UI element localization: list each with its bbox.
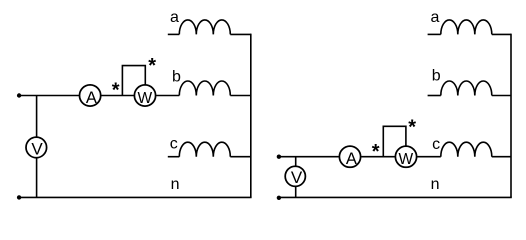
wire: b line, ammeter to wattmeter bbox=[101, 95, 134, 97]
svg-text:W: W bbox=[137, 90, 152, 107]
wire: a coil to neutral bus (right circuit) bbox=[492, 33, 511, 35]
svg-text:b: b bbox=[172, 68, 181, 85]
ammeter A (left circuit) bbox=[80, 85, 101, 107]
ammeter A (right circuit) bbox=[339, 146, 360, 168]
wire: c coil to neutral bus (right circuit) bbox=[492, 156, 511, 158]
wire: c coil to neutral bus bbox=[230, 156, 251, 158]
wire: c line, terminal to ammeter (right circuit) bbox=[279, 156, 339, 158]
wire: voltmeter branch, c line down to voltmeter (right circuit) bbox=[295, 157, 297, 166]
svg-text:*: * bbox=[372, 141, 380, 163]
node: neutral supply terminal (right circuit) bbox=[277, 196, 281, 200]
svg-text:V: V bbox=[31, 139, 43, 158]
wire: a line stub (left circuit) bbox=[168, 33, 180, 35]
svg-text:n: n bbox=[171, 176, 180, 193]
wattmeter W (right circuit) bbox=[395, 146, 416, 168]
inductor: phase c load coil (left circuit) bbox=[179, 142, 230, 157]
svg-text:A: A bbox=[346, 150, 357, 168]
wire: b coil to neutral bus bbox=[230, 95, 251, 97]
wire: c line, wattmeter to coil (right circuit) bbox=[417, 156, 441, 158]
svg-text:V: V bbox=[291, 168, 303, 187]
inductor: phase b load coil (right circuit) bbox=[441, 81, 492, 96]
svg-text:A: A bbox=[86, 89, 97, 107]
node: phase c supply terminal (right circuit) bbox=[277, 155, 281, 159]
svg-text:*: * bbox=[148, 55, 156, 77]
wire: neutral line n (right circuit) bbox=[279, 196, 512, 198]
wire: voltmeter branch, voltmeter down to neutral line (right circuit) bbox=[295, 187, 297, 198]
wattmeter W (left circuit) bbox=[134, 85, 155, 107]
voltmeter V (right circuit) bbox=[285, 166, 305, 187]
svg-text:a: a bbox=[431, 9, 440, 26]
wire: a line stub (right circuit) bbox=[428, 33, 441, 35]
svg-text:*: * bbox=[408, 116, 416, 138]
wire: b line, terminal to ammeter bbox=[19, 95, 79, 97]
wire: c line stub (left circuit) bbox=[168, 156, 180, 158]
wire: wattmeter voltage-coil bracket bbox=[122, 66, 145, 96]
inductor: phase a load coil (right circuit) bbox=[441, 20, 492, 35]
node: neutral supply terminal (left circuit) bbox=[17, 195, 21, 199]
wire: b coil to neutral bus (right circuit) bbox=[492, 95, 511, 97]
svg-text:b: b bbox=[432, 67, 441, 84]
svg-text:a: a bbox=[170, 9, 179, 26]
wire: neutral bus vertical (right circuit) bbox=[510, 34, 512, 198]
wire: voltmeter branch, b line down to voltmeter bbox=[36, 96, 38, 138]
svg-text:c: c bbox=[432, 136, 440, 153]
wire: c line, ammeter to wattmeter (right circuit) bbox=[361, 156, 395, 158]
node: phase b supply terminal (left circuit) bbox=[17, 93, 21, 97]
svg-text:W: W bbox=[398, 151, 413, 168]
inductor: phase c load coil (right circuit) bbox=[441, 142, 492, 157]
wire: a coil to neutral bus bbox=[230, 33, 251, 35]
wire: neutral bus vertical (left circuit) bbox=[250, 34, 252, 198]
wire: voltmeter branch, voltmeter down to neutral line bbox=[36, 158, 38, 197]
inductor: phase a load coil (left circuit) bbox=[179, 20, 230, 35]
wire: neutral line n (left circuit) bbox=[19, 196, 252, 198]
inductor: phase b load coil (left circuit) bbox=[179, 81, 230, 96]
svg-text:c: c bbox=[170, 136, 178, 153]
wire: b line, wattmeter to coil bbox=[156, 95, 179, 97]
svg-text:n: n bbox=[431, 176, 440, 193]
voltmeter V (left circuit) bbox=[26, 137, 47, 158]
wire: b line stub (right circuit) bbox=[428, 95, 441, 97]
wire: wattmeter voltage-coil bracket (right circuit) bbox=[383, 126, 406, 156]
svg-text:*: * bbox=[112, 80, 120, 102]
